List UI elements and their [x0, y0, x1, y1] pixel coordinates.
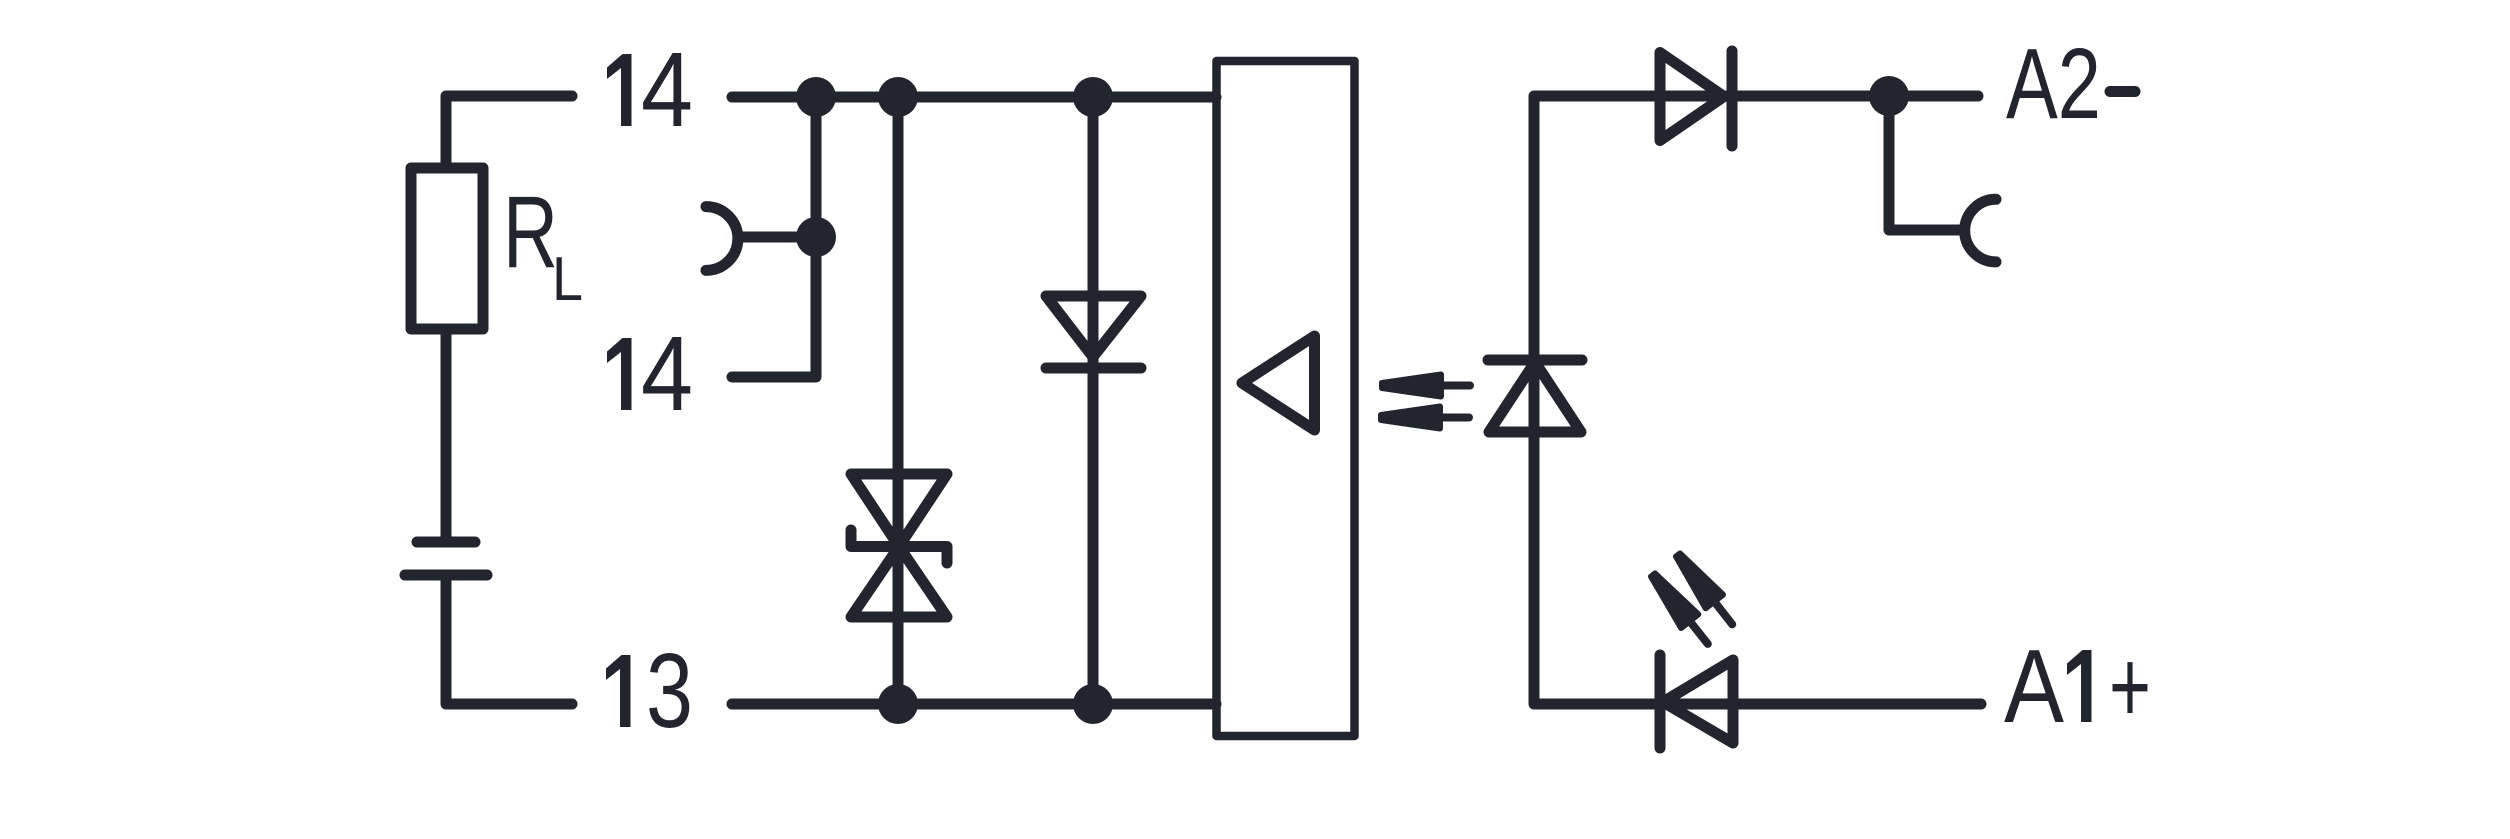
svg-text:R: R	[503, 175, 558, 289]
wire diode branch vertical	[1088, 97, 1099, 704]
wire A2 top run	[1534, 96, 1978, 361]
svg-text:4: 4	[641, 31, 693, 149]
output block rectangle	[1217, 61, 1355, 736]
diode D1 triangle	[1660, 53, 1724, 141]
wire vertical branch to terminal 14 second	[732, 97, 816, 377]
terminal label 13	[606, 655, 631, 727]
junction node bottom bus left	[878, 684, 918, 724]
junction node A2	[1869, 76, 1909, 116]
wire RL top to terminal 14	[446, 96, 572, 165]
junction node top bus left	[796, 77, 836, 117]
junction node bottom bus right	[1073, 684, 1113, 724]
diode D1 cathode bar	[1727, 51, 1738, 146]
socket contact arc at A2	[1965, 199, 1996, 262]
battery plate bottom	[405, 570, 487, 581]
freewheel diode triangle	[1046, 296, 1141, 357]
junction node socket 14	[796, 217, 836, 257]
junction node top bus right	[1073, 77, 1113, 117]
svg-text:4: 4	[641, 315, 693, 433]
svg-text:+: +	[2109, 629, 2151, 745]
svg-text:3: 3	[646, 632, 693, 750]
optocoupler LED triangle	[1489, 362, 1581, 432]
TVS suppressor bottom triangle	[851, 547, 947, 618]
light arrow 2 into receiver	[1381, 407, 1469, 429]
svg-text:L: L	[552, 245, 583, 314]
wire socket arc to junction	[740, 232, 816, 243]
light arrow 1 into receiver	[1382, 375, 1470, 397]
optocoupler LED cathode bar	[1488, 355, 1582, 366]
terminal label 14 top	[607, 54, 632, 126]
wire A2 socket branch	[1889, 96, 1964, 230]
terminal label 14 second	[607, 338, 632, 410]
wire LED to A1	[1534, 361, 1981, 704]
junction node top bus mid	[878, 77, 918, 117]
indicator LED cathode bar	[1655, 655, 1666, 748]
battery plate top	[417, 537, 475, 548]
resistor RL body	[411, 168, 483, 329]
svg-text:A: A	[2004, 629, 2065, 745]
freewheel diode cathode bar	[1046, 363, 1141, 374]
indicator LED emission arrow 2	[1669, 548, 1741, 631]
socket contact arc at node 14	[706, 207, 738, 271]
TVS suppressor top triangle	[851, 474, 947, 547]
indicator LED triangle	[1663, 660, 1733, 743]
photoreceiver triangle	[1242, 336, 1315, 430]
wire TVS branch vertical	[893, 97, 904, 704]
indicator LED emission arrow 1	[1644, 568, 1716, 651]
wire RL bottom to battery	[441, 329, 452, 538]
wire battery to terminal 13	[446, 579, 572, 704]
wire bottom bus 13 to output block	[732, 699, 1216, 710]
svg-text:A2: A2	[2006, 28, 2101, 140]
wire top bus 14 to output block	[732, 92, 1216, 103]
TVS suppressor zener bar	[851, 530, 947, 563]
